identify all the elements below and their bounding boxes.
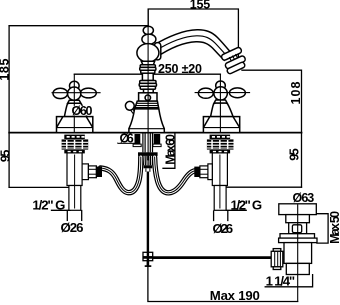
dimension 250 line: [74, 73, 220, 75]
svg-text:Ø63: Ø63: [293, 191, 315, 205]
knurled nut: [273, 249, 281, 252]
main ball: [137, 44, 159, 62]
svg-text:95: 95: [288, 148, 302, 161]
column neck 2: [144, 89, 154, 93]
dimension 108 line: [242, 70, 302, 132]
spout tube middle line: [155, 36, 228, 57]
vertical pull rod: [147, 172, 149, 267]
1/2G left underline: [52, 209, 71, 211]
handle top spoke: [70, 81, 80, 90]
valve body tube: [212, 153, 227, 186]
svg-text:250 ±20: 250 ±20: [158, 62, 202, 76]
handle hub: [214, 87, 227, 100]
svg-text:Ø26: Ø26: [61, 220, 84, 235]
leader line for O6: [118, 142, 136, 144]
drain plate 1: [280, 234, 315, 238]
handle centerline horizontal: [52, 92, 101, 94]
rod joint: [143, 252, 153, 260]
rod guide hatch: [142, 156, 145, 165]
shank lock plate: [138, 152, 158, 156]
valve body tube: [67, 153, 82, 186]
stud right M6: [154, 134, 161, 146]
rod tube: [145, 168, 147, 172]
outlet collar: [82, 164, 88, 180]
svg-text:Max 60: Max 60: [164, 134, 178, 165]
handle hub: [68, 87, 81, 100]
handle right wing: [81, 88, 97, 98]
label O6: [118, 134, 135, 143]
escutcheon: [57, 117, 93, 133]
inlet collar: [208, 164, 212, 180]
dimension Max50 bracket: [316, 214, 328, 243]
svg-text:108: 108: [289, 81, 303, 104]
right hose: [155, 157, 196, 193]
handle neck: [214, 100, 227, 103]
escutcheon: [203, 117, 239, 133]
handle top spoke: [216, 81, 226, 90]
1 1/4 underline: [265, 275, 312, 287]
pull knob: [125, 101, 134, 110]
svg-text:Ø26: Ø26: [213, 221, 234, 236]
right valve below deck: [195, 135, 234, 211]
label 250 +-20: [158, 63, 204, 73]
inlet hex: [200, 166, 208, 178]
dimension Max190 line: [148, 267, 298, 302]
label O60: [71, 106, 94, 116]
1/2G right underline: [226, 209, 246, 211]
shank tube lines: [142, 133, 144, 152]
column rings 2: [140, 81, 156, 84]
svg-text:Ø60: Ø60: [72, 104, 93, 118]
outlet hex: [88, 166, 96, 178]
svg-text:95: 95: [0, 150, 12, 163]
ribbed cone: [135, 101, 159, 109]
svg-text:Ø6: Ø6: [120, 131, 134, 145]
svg-text:1 1/4": 1 1/4": [266, 273, 296, 288]
svg-text:Max 190: Max 190: [210, 288, 260, 303]
dimension 185/95 left vertical line: [8, 26, 10, 188]
handle centerline horizontal: [195, 92, 251, 94]
inlet nipple: [195, 167, 200, 176]
drain body: [284, 243, 312, 264]
valve tail 1/2G: [69, 186, 81, 211]
spout collar band: [154, 43, 160, 60]
threaded lock nut: [207, 139, 234, 149]
handle centerline vertical: [219, 74, 221, 132]
block circle: [145, 95, 150, 100]
drain plate 2: [279, 238, 317, 243]
dimension Max60 bracket: [163, 133, 175, 169]
outlet nipple: [96, 167, 101, 176]
stud left M6: [134, 134, 140, 146]
deck line: [9, 132, 301, 134]
rod guide band: [144, 165, 153, 168]
knurled flange band: [210, 150, 231, 154]
aerator band 1: [221, 47, 243, 61]
svg-text:Max 50: Max 50: [328, 211, 340, 244]
drain centerline: [297, 205, 299, 302]
knurled flange band: [64, 150, 85, 154]
extension line top (spout height): [9, 25, 148, 27]
drain tail 1 1/4: [286, 263, 309, 274]
left valve below deck: [62, 135, 102, 211]
column block: [139, 93, 157, 101]
handle right wing: [229, 88, 245, 98]
finial ball: [143, 26, 153, 34]
drain flange O63: [279, 204, 317, 215]
knurled washer band: [64, 135, 85, 139]
column shaft: [142, 73, 153, 80]
handle left wing: [198, 88, 213, 98]
threaded lock nut: [62, 139, 89, 149]
svg-text:185: 185: [0, 59, 11, 81]
O26 left bracket: [66, 211, 68, 221]
pull knob stem: [132, 110, 136, 115]
handle left wing: [53, 88, 68, 98]
handle neck: [68, 100, 81, 103]
aerator tube lines: [230, 58, 232, 62]
left hose: [101, 157, 141, 193]
handle skirt: [64, 103, 87, 116]
extension line bottom right 95: [226, 186, 301, 188]
spout tube bottom line: [156, 42, 224, 61]
drain box: [289, 223, 307, 234]
O26 right bracket: [213, 211, 215, 221]
bell base: [129, 109, 164, 133]
handle skirt: [211, 103, 234, 117]
valve tail 1/2G: [214, 186, 226, 211]
knurled washer band: [210, 135, 231, 139]
svg-text:155: 155: [190, 0, 211, 12]
ball 2: [142, 34, 156, 44]
center column centerline: [147, 9, 149, 160]
column neck: [141, 61, 154, 64]
svg-text:1/2" G: 1/2" G: [231, 197, 263, 212]
extension line bottom left 95: [9, 186, 69, 188]
svg-text:1/2" G: 1/2" G: [32, 197, 65, 212]
dimension 155 line: [148, 9, 238, 58]
aerator band 2: [225, 55, 247, 69]
horizontal rod: [148, 256, 273, 259]
dimension 95 right vertical: [301, 133, 303, 188]
spout tube top line: [154, 30, 231, 53]
aerator band 3 tip: [226, 62, 245, 75]
handle centerline vertical: [73, 74, 75, 132]
column rings 1: [140, 65, 155, 68]
drain neck: [286, 215, 310, 223]
